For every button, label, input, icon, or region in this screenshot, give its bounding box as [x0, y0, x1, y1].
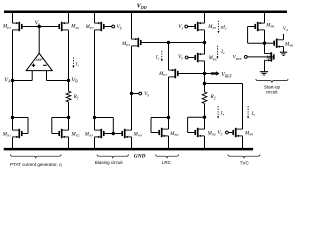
svg-text:MP1: MP1: [2, 25, 11, 30]
svg-text:MP7: MP7: [158, 72, 167, 77]
svg-text:I4: I4: [220, 112, 225, 117]
svg-text:LRC: LRC: [162, 160, 172, 165]
svg-text:MP4: MP4: [121, 42, 130, 47]
svg-text:MN4: MN4: [133, 132, 142, 137]
svg-text:MN2: MN2: [71, 132, 80, 137]
svg-text:circuit: circuit: [266, 90, 279, 95]
svg-text:TVC: TVC: [240, 161, 250, 166]
svg-text:MP5: MP5: [207, 25, 216, 30]
svg-text:AMP: AMP: [36, 58, 44, 62]
svg-text:MP6: MP6: [208, 56, 217, 61]
svg-text:I2: I2: [220, 50, 225, 55]
svg-text:GND: GND: [134, 153, 146, 159]
svg-text:MN1: MN1: [2, 132, 11, 137]
svg-text:Biasing circuit: Biasing circuit: [95, 160, 124, 165]
svg-text:MP2: MP2: [70, 25, 79, 30]
svg-text:αI2: αI2: [221, 25, 227, 30]
svg-text:MP3: MP3: [85, 25, 94, 30]
svg-text:MN5: MN5: [169, 132, 178, 137]
svg-text:I1: I1: [75, 63, 80, 68]
svg-text:MN3: MN3: [84, 132, 93, 137]
svg-text:MN9: MN9: [244, 131, 253, 136]
svg-text:I5: I5: [250, 112, 255, 117]
svg-text:MP8: MP8: [265, 23, 274, 28]
svg-text:MN7: MN7: [265, 56, 274, 61]
svg-text:MN6: MN6: [207, 132, 216, 137]
svg-text:I2: I2: [155, 55, 160, 60]
svg-text:MN8: MN8: [284, 42, 293, 47]
